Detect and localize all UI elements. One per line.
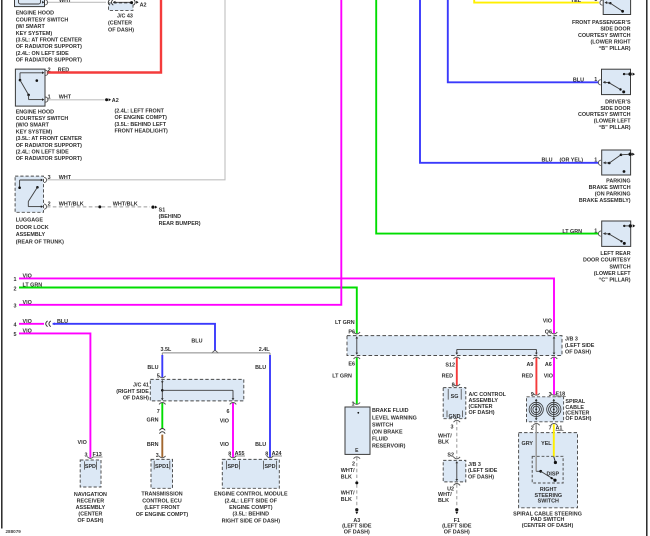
svg-text:(LOWER LEFT: (LOWER LEFT — [594, 271, 632, 277]
svg-text:(2.4L: ON LEFT SIDE: (2.4L: ON LEFT SIDE — [16, 51, 69, 57]
svg-text:(LOWER RIGHT: (LOWER RIGHT — [590, 39, 631, 45]
svg-text:WHT/: WHT/ — [341, 468, 355, 474]
svg-text:FRONT HEADLIGHT): FRONT HEADLIGHT) — [115, 128, 169, 134]
svg-text:SG: SG — [451, 394, 459, 400]
svg-text:S1: S1 — [159, 207, 166, 213]
svg-text:FLUID: FLUID — [372, 437, 388, 443]
svg-text:J/B 3: J/B 3 — [565, 337, 578, 343]
svg-text:BRN: BRN — [147, 442, 159, 448]
svg-text:OF DASH): OF DASH) — [565, 349, 591, 355]
svg-text:(2.4L: LEFT FRONT: (2.4L: LEFT FRONT — [115, 109, 165, 115]
svg-text:BLU: BLU — [147, 365, 158, 371]
svg-text:E6: E6 — [348, 361, 355, 367]
svg-text:“B” PILLAR): “B” PILLAR) — [599, 125, 631, 131]
svg-text:(CENTER: (CENTER — [108, 21, 132, 27]
svg-text:SPD: SPD — [85, 464, 96, 470]
svg-text:3: 3 — [156, 453, 159, 459]
svg-text:(2.4L: LEFT SIDE OF: (2.4L: LEFT SIDE OF — [225, 498, 278, 504]
svg-text:7: 7 — [549, 425, 552, 431]
svg-text:YEL: YEL — [571, 0, 582, 4]
svg-text:(3.5L: BEHIND: (3.5L: BEHIND — [233, 512, 270, 518]
svg-text:1: 1 — [594, 77, 597, 83]
svg-text:DRIVER’S: DRIVER’S — [605, 99, 631, 105]
svg-text:COURTESY SWITCH: COURTESY SWITCH — [16, 116, 69, 122]
svg-text:S12: S12 — [445, 363, 455, 369]
svg-text:2: 2 — [14, 286, 17, 292]
svg-text:OF RADIATOR SUPPORT): OF RADIATOR SUPPORT) — [16, 143, 82, 149]
svg-text:YEL: YEL — [541, 441, 552, 447]
svg-text:VIO: VIO — [23, 329, 32, 335]
svg-text:RECEIVER: RECEIVER — [77, 498, 105, 504]
svg-text:OF DASH): OF DASH) — [344, 530, 370, 536]
svg-text:WHT: WHT — [59, 0, 72, 4]
svg-text:BRAKE SWITCH: BRAKE SWITCH — [589, 185, 631, 191]
svg-text:VIO: VIO — [23, 300, 32, 306]
svg-text:OF RADIATOR SUPPORT): OF RADIATOR SUPPORT) — [16, 156, 82, 162]
svg-text:RESERVOIR): RESERVOIR) — [372, 444, 406, 450]
svg-text:COURTESY SWITCH: COURTESY SWITCH — [578, 33, 631, 39]
svg-text:BLK: BLK — [438, 440, 449, 446]
svg-text:SPD: SPD — [264, 464, 275, 470]
svg-text:2: 2 — [352, 461, 355, 467]
svg-text:SPD: SPD — [227, 464, 238, 470]
svg-text:NAVIGATION: NAVIGATION — [74, 492, 107, 498]
svg-text:(3.5L: AT FRONT CENTER: (3.5L: AT FRONT CENTER — [16, 136, 82, 142]
svg-text:VIO: VIO — [220, 418, 229, 424]
svg-text:OF ENGINE COMPT): OF ENGINE COMPT) — [136, 512, 189, 518]
svg-text:3: 3 — [451, 425, 454, 431]
svg-text:BLK: BLK — [341, 497, 352, 503]
svg-text:OF ENGINE COMPT): OF ENGINE COMPT) — [115, 115, 168, 121]
svg-text:(LEFT SIDE: (LEFT SIDE — [468, 468, 498, 474]
svg-text:(W/ SMART: (W/ SMART — [16, 24, 46, 30]
svg-text:BLU: BLU — [255, 442, 266, 448]
svg-text:DISP: DISP — [547, 471, 560, 477]
svg-text:WHT/BLK: WHT/BLK — [113, 202, 138, 208]
svg-text:WHT/: WHT/ — [438, 492, 452, 498]
svg-text:BLU: BLU — [57, 319, 68, 325]
svg-text:BLK: BLK — [341, 474, 352, 480]
svg-text:3.5L: 3.5L — [161, 347, 172, 353]
svg-text:A6: A6 — [545, 362, 552, 368]
svg-text:(OR YEL): (OR YEL) — [560, 157, 584, 163]
svg-text:BLK: BLK — [438, 498, 449, 504]
svg-text:ENGINE HOOD: ENGINE HOOD — [16, 11, 54, 17]
svg-text:GRN: GRN — [147, 417, 159, 423]
svg-text:FRONT PASSENGER’S: FRONT PASSENGER’S — [572, 20, 631, 26]
svg-text:VIO: VIO — [23, 274, 32, 280]
svg-text:ENGINE HOOD: ENGINE HOOD — [16, 109, 54, 115]
svg-text:GND: GND — [449, 414, 461, 420]
svg-text:DOOR LOCK: DOOR LOCK — [16, 225, 49, 231]
svg-text:OF DASH): OF DASH) — [444, 530, 470, 536]
svg-text:LUGGAGE: LUGGAGE — [16, 218, 44, 224]
svg-text:BLU: BLU — [191, 338, 202, 344]
svg-text:288079: 288079 — [6, 529, 22, 534]
svg-text:7: 7 — [157, 409, 160, 415]
svg-text:1: 1 — [594, 228, 597, 234]
svg-text:1: 1 — [352, 401, 355, 407]
svg-text:VIO: VIO — [543, 319, 552, 325]
svg-text:(CENTER OF DASH): (CENTER OF DASH) — [522, 523, 574, 529]
svg-text:TRANSMISSION: TRANSMISSION — [141, 492, 182, 498]
svg-text:BLU: BLU — [573, 78, 584, 84]
svg-text:OF DASH): OF DASH) — [123, 396, 149, 402]
svg-text:J/C 43: J/C 43 — [117, 14, 133, 20]
svg-text:(LOWER LEFT: (LOWER LEFT — [594, 119, 632, 125]
svg-text:LEFT REAR: LEFT REAR — [600, 251, 630, 257]
svg-text:RED: RED — [442, 373, 453, 379]
svg-text:LEVEL WARNING: LEVEL WARNING — [372, 415, 417, 421]
svg-text:REAR BUMPER): REAR BUMPER) — [159, 221, 201, 227]
svg-text:(ON PARKING: (ON PARKING — [595, 192, 631, 198]
svg-text:J/C 41: J/C 41 — [133, 383, 149, 389]
svg-text:LT GRN: LT GRN — [562, 229, 582, 235]
svg-text:COURTESY SWITCH: COURTESY SWITCH — [578, 112, 631, 118]
svg-text:A2: A2 — [140, 2, 147, 8]
svg-text:RED: RED — [522, 373, 533, 379]
svg-text:(RIGHT SIDE: (RIGHT SIDE — [116, 389, 149, 395]
svg-text:3: 3 — [85, 453, 88, 459]
svg-text:4: 4 — [14, 323, 17, 329]
svg-text:(BEHIND: (BEHIND — [159, 214, 182, 220]
svg-text:“B” PILLAR): “B” PILLAR) — [599, 46, 631, 52]
svg-text:(2.4L: ON LEFT SIDE: (2.4L: ON LEFT SIDE — [16, 150, 69, 156]
svg-text:(3.5L: BEHIND LEFT: (3.5L: BEHIND LEFT — [115, 122, 167, 128]
svg-text:OF RADIATOR SUPPORT): OF RADIATOR SUPPORT) — [16, 44, 82, 50]
svg-text:A2: A2 — [112, 98, 119, 104]
svg-text:SIDE DOOR: SIDE DOOR — [600, 27, 630, 33]
svg-text:(CENTER: (CENTER — [78, 511, 102, 517]
svg-text:RIGHT SIDE OF DASH): RIGHT SIDE OF DASH) — [222, 518, 281, 524]
svg-text:VIO: VIO — [544, 373, 553, 379]
svg-text:WHT/: WHT/ — [438, 433, 452, 439]
svg-text:J/B 3: J/B 3 — [468, 462, 481, 468]
svg-text:VIO: VIO — [23, 319, 32, 325]
svg-text:GRY: GRY — [522, 441, 534, 447]
svg-text:OF DASH): OF DASH) — [108, 27, 134, 33]
svg-text:(LEFT FRONT: (LEFT FRONT — [144, 505, 180, 511]
svg-text:OF DASH): OF DASH) — [468, 475, 494, 481]
svg-text:(W/O SMART: (W/O SMART — [16, 123, 50, 129]
svg-text:SWITCH: SWITCH — [609, 264, 630, 270]
svg-text:WHT/: WHT/ — [341, 491, 355, 497]
svg-text:A9: A9 — [526, 362, 533, 368]
svg-text:BRAKE FLUID: BRAKE FLUID — [372, 408, 409, 414]
svg-text:LT GRN: LT GRN — [23, 283, 43, 289]
svg-text:2.4L: 2.4L — [259, 347, 270, 353]
svg-text:OF DASH): OF DASH) — [565, 416, 591, 422]
svg-text:3: 3 — [48, 175, 51, 181]
svg-text:WHT: WHT — [59, 175, 72, 181]
svg-text:LT GRN: LT GRN — [335, 320, 355, 326]
svg-text:KEY SYSTEM): KEY SYSTEM) — [16, 129, 53, 135]
svg-text:OF DASH): OF DASH) — [469, 410, 495, 416]
svg-text:ASSEMBLY: ASSEMBLY — [76, 505, 106, 511]
svg-text:(REAR OF TRUNK): (REAR OF TRUNK) — [16, 239, 64, 245]
svg-text:1: 1 — [594, 157, 597, 163]
svg-text:VIO: VIO — [78, 440, 87, 446]
svg-text:LT GRN: LT GRN — [332, 373, 352, 379]
svg-text:DOOR COURTESY: DOOR COURTESY — [583, 258, 631, 264]
svg-text:1: 1 — [594, 0, 597, 3]
svg-text:SIDE DOOR: SIDE DOOR — [600, 106, 630, 112]
svg-text:6: 6 — [227, 409, 230, 415]
svg-text:S2: S2 — [447, 452, 454, 458]
svg-text:(ON BRAKE: (ON BRAKE — [372, 430, 403, 436]
svg-text:1: 1 — [14, 277, 17, 283]
svg-text:OF DASH): OF DASH) — [77, 518, 103, 524]
svg-text:5: 5 — [14, 332, 17, 338]
svg-text:2: 2 — [531, 425, 534, 431]
svg-text:3: 3 — [14, 304, 17, 310]
svg-text:KEY SYSTEM): KEY SYSTEM) — [16, 31, 53, 37]
svg-text:PARKING: PARKING — [606, 179, 630, 185]
svg-text:BRAKE ASSEMBLY): BRAKE ASSEMBLY) — [579, 198, 631, 204]
svg-text:“C” PILLAR): “C” PILLAR) — [599, 278, 631, 284]
svg-text:(LEFT SIDE: (LEFT SIDE — [565, 343, 595, 349]
svg-text:VIO: VIO — [220, 442, 229, 448]
svg-text:ENGINE COMPT): ENGINE COMPT) — [229, 505, 273, 511]
svg-text:SWITCH: SWITCH — [372, 422, 393, 428]
svg-text:ASSEMBLY: ASSEMBLY — [16, 232, 46, 238]
svg-text:BLU: BLU — [542, 157, 553, 163]
svg-text:SWITCH: SWITCH — [538, 499, 559, 505]
svg-text:ENGINE CONTROL MODULE: ENGINE CONTROL MODULE — [214, 492, 288, 498]
svg-text:SPD1: SPD1 — [155, 464, 169, 470]
svg-text:BLU: BLU — [255, 365, 266, 371]
svg-text:OF RADIATOR SUPPORT): OF RADIATOR SUPPORT) — [16, 58, 82, 64]
svg-text:(3.5L: AT FRONT CENTER: (3.5L: AT FRONT CENTER — [16, 38, 82, 44]
svg-text:COURTESY SWITCH: COURTESY SWITCH — [16, 17, 69, 23]
svg-text:CONTROL ECU: CONTROL ECU — [142, 498, 182, 504]
